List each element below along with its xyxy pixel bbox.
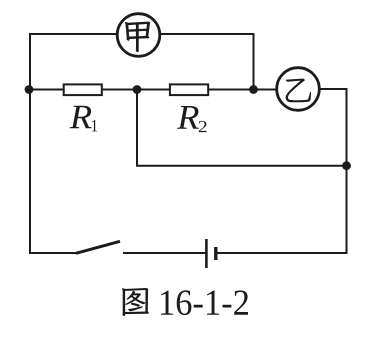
wire node M down xyxy=(136,90,138,166)
meter 甲 circle xyxy=(117,14,160,57)
caption 图 glyph xyxy=(122,288,149,316)
resistor R1 label R xyxy=(70,106,92,129)
switch blade xyxy=(76,241,120,253)
battery short plate xyxy=(214,247,217,260)
resistor R2 xyxy=(170,84,208,95)
wire meter 甲 to top-right corner xyxy=(160,33,254,35)
wire left vertical branch xyxy=(29,33,31,254)
wire bottom-left to switch xyxy=(29,252,77,254)
wire switch to battery xyxy=(123,252,206,254)
wire R2 to meter 乙 xyxy=(209,89,278,91)
node A junction dot xyxy=(25,85,34,94)
meter 乙 circle xyxy=(277,68,320,111)
node C junction dot xyxy=(342,161,351,170)
wire meter 乙 to right side xyxy=(320,88,348,90)
caption 16-1-2 xyxy=(161,290,248,315)
resistor R2 label subscript 2 xyxy=(199,121,207,132)
node M junction dot xyxy=(133,85,142,94)
wire node A to resistor R1 xyxy=(29,89,64,91)
resistor R1 label subscript 1 xyxy=(92,120,98,131)
resistor R1 xyxy=(64,84,102,95)
wire middle horizontal to node C xyxy=(136,165,347,167)
meter 乙 label xyxy=(286,79,311,103)
battery long plate xyxy=(205,239,208,268)
wire R1 to R2 through node M xyxy=(102,89,170,91)
node B junction dot xyxy=(249,85,258,94)
wire right vertical branch xyxy=(346,88,348,254)
wire top-right corner down to node B xyxy=(253,33,255,90)
meter 甲 label xyxy=(125,22,150,53)
wire top horizontal to meter 甲 xyxy=(29,33,117,35)
resistor R2 label R xyxy=(177,106,199,129)
wire battery to bottom-right xyxy=(216,252,348,254)
